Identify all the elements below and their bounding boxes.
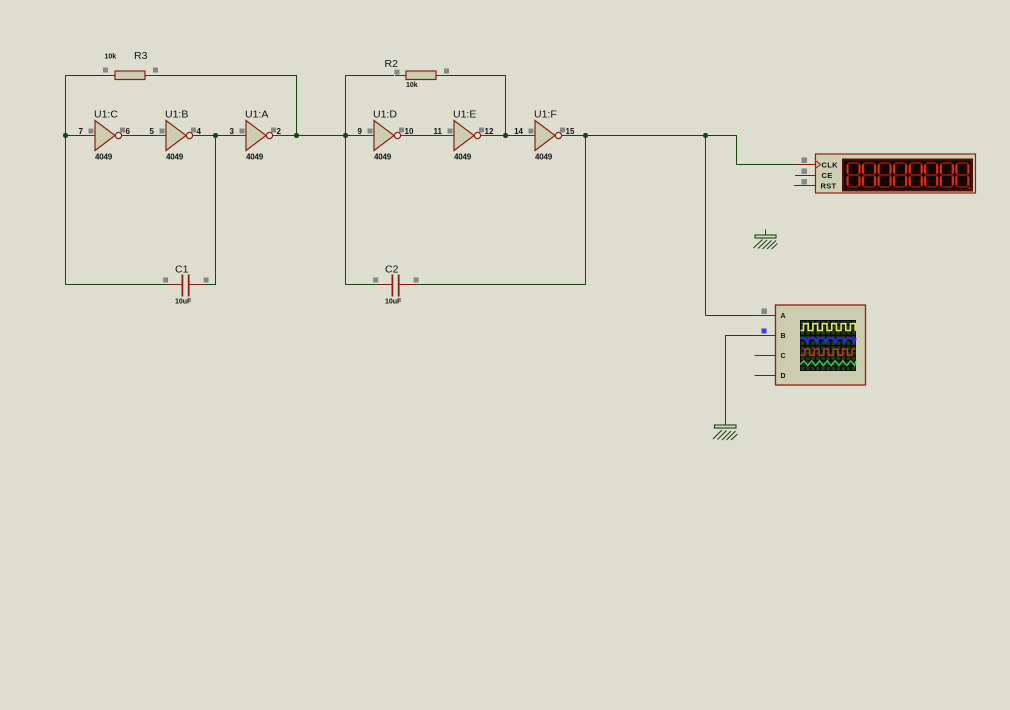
wire: input wire (65,135)-(84,135) [66,135,85,137]
svg-text:A: A [781,313,786,320]
wire: osc2 top loop left segment to R2 [345,75,394,77]
resistor R2 [395,69,450,80]
capacitor C2 [373,275,419,297]
svg-text:U1:E: U1:E [453,109,476,121]
svg-text:D: D [781,373,786,380]
wire: wire U1:B out to U1:A in [204,135,235,137]
svg-text:4049: 4049 [535,153,553,162]
wire: osc1 top loop right segment and right rail [157,75,297,135]
svg-text:4049: 4049 [454,153,472,162]
wire: osc2 top loop right segment and rail (505,75)-(505,135) [448,75,506,135]
node: junction (215,135) [213,133,218,138]
svg-text:U1:C: U1:C [94,109,118,121]
svg-text:U1:B: U1:B [165,109,188,121]
svg-text:C2: C2 [385,264,399,276]
inverter U1:F [514,109,575,162]
svg-text:C1: C1 [175,264,189,276]
svg-text:U1:A: U1:A [245,109,268,121]
wire: scope A feed (705,135)-(705,315)-(754,315) [706,135,755,316]
counter display U2 (CLK/CE/RST) [794,154,976,193]
svg-text:12: 12 [485,127,494,136]
svg-text:4049: 4049 [95,153,113,162]
svg-text:U1:F: U1:F [534,109,557,121]
wire: osc2 bottom loop left (345,284)-(376,284) [345,284,378,286]
svg-text:U1:D: U1:D [373,109,397,121]
svg-text:C: C [781,353,786,360]
node: osc1 input junction (65,135) [63,133,68,138]
capacitor C1 [163,275,209,297]
svg-text:15: 15 [566,127,575,136]
wire: wire U1:E out to U1:F in [492,135,524,137]
svg-text:RST: RST [821,181,837,190]
svg-text:CLK: CLK [822,161,839,170]
svg-text:3: 3 [230,127,235,136]
wire: wire U1:C out to U1:B in [133,135,155,137]
wire: wire U1:A out to osc2 input [284,135,345,137]
inverter U1:E [434,109,494,162]
wire: counter CLK feed (737,135)-(737,164)-(797,164) [737,135,798,165]
inverter U1:B [150,109,204,162]
svg-text:7: 7 [79,127,84,136]
inverter U1:C [79,109,133,162]
ground (below scope) [713,425,738,440]
wire: osc1 top loop left segment to R3 [65,75,104,77]
svg-text:10: 10 [405,127,414,136]
wire: input wire (345,135)-(363,135) [346,135,364,137]
svg-text:10uF: 10uF [385,299,402,306]
wire: wire U1:D out to U1:E in [412,135,443,137]
svg-text:14: 14 [514,127,523,136]
svg-text:4049: 4049 [166,153,184,162]
wire: osc1 bottom loop right and rail (215,284)-(215,135) [205,135,216,285]
svg-text:10uF: 10uF [175,299,192,306]
wire: osc1 left rail (65,75)-(65,284) [65,75,67,285]
wire: osc1 bottom loop left (65,284)-(166,284) [65,284,168,286]
node: junction (705,135) [703,133,708,138]
svg-text:9: 9 [358,127,363,136]
svg-text:4: 4 [197,127,202,136]
inverter U1:D [358,109,414,162]
node: junction (505,135) [503,133,508,138]
node: osc2 input junction (345,135) [343,133,348,138]
svg-text:R2: R2 [385,58,399,70]
svg-text:10k: 10k [406,82,418,89]
svg-text:B: B [781,333,786,340]
node: junction (296,135) [294,133,299,138]
svg-text:4049: 4049 [374,153,392,162]
ground (floating, near counter) [754,230,778,250]
node: junction (585,135) [583,133,588,138]
wire: output line (573,135)-(737,135) [573,135,737,137]
wire: osc2 bottom loop right and rail (585,284)-(585,135) [415,135,586,285]
wire: scope B ground wire (755,335)-(725,335)-(725,425) [726,335,756,425]
svg-text:2: 2 [277,127,282,136]
svg-text:R3: R3 [134,50,148,62]
oscilloscope [754,305,866,385]
svg-text:10k: 10k [105,54,117,61]
svg-text:4049: 4049 [246,153,264,162]
svg-text:11: 11 [434,127,443,136]
svg-text:5: 5 [150,127,155,136]
resistor R3 [103,68,158,80]
inverter U1:A [230,109,284,162]
svg-text:6: 6 [126,127,131,136]
wire: osc2 left rail (345,75)-(345,284) [345,75,347,285]
svg-text:CE: CE [822,171,833,180]
